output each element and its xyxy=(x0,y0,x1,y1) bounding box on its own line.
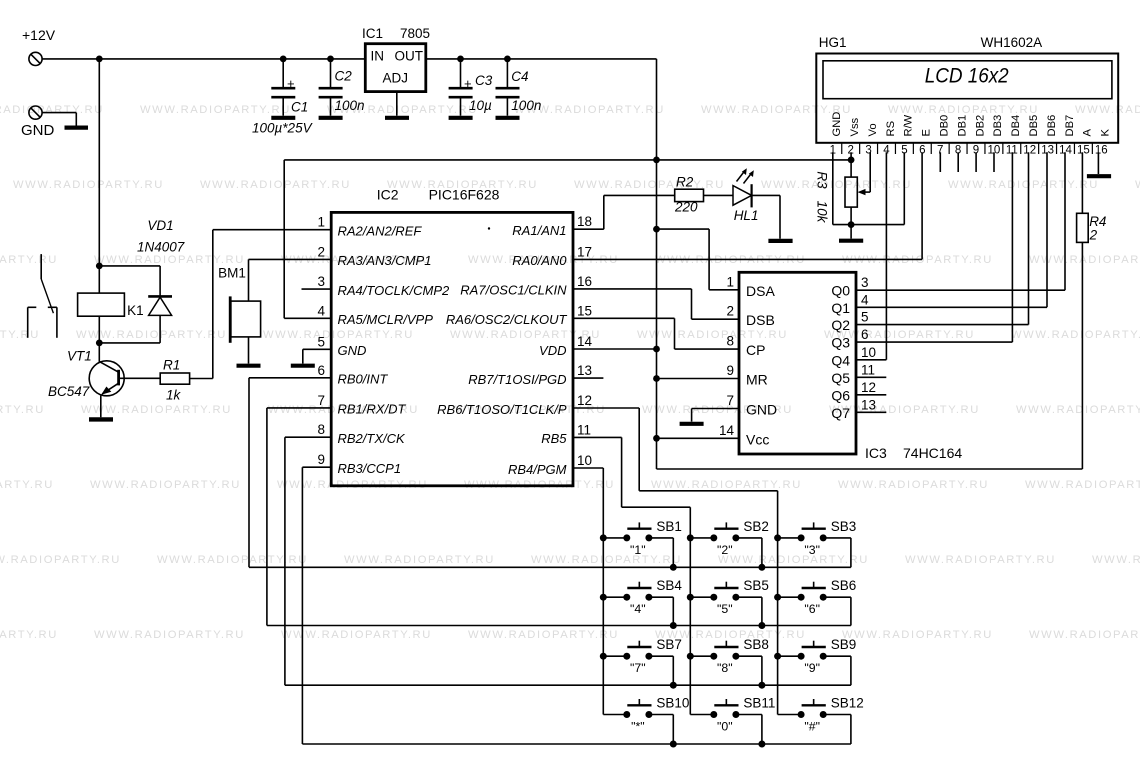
svg-text:R1: R1 xyxy=(163,358,180,373)
wire pin 10 RB4 to keypad column A xyxy=(573,468,603,715)
node junction SB5 to row bus xyxy=(758,622,765,629)
svg-text:IC2: IC2 xyxy=(377,187,399,203)
svg-text:220: 220 xyxy=(674,200,698,215)
svg-text:Q2: Q2 xyxy=(831,317,850,333)
wire R2 to HL1 xyxy=(704,194,734,196)
node junction SB1 to row bus xyxy=(670,564,677,571)
svg-text:Vcc: Vcc xyxy=(746,431,769,447)
svg-text:12: 12 xyxy=(1023,145,1036,157)
capacitor C1 100u*25V electrolytic xyxy=(252,59,314,136)
relay contact K1 xyxy=(28,254,57,338)
node junction column B row 3 xyxy=(687,653,694,660)
svg-text:14: 14 xyxy=(1059,145,1072,157)
wire IC3 Vcc to +5V xyxy=(657,437,740,439)
svg-text:WWW.RADIOPARTY.RU: WWW.RADIOPARTY.RU xyxy=(1011,329,1140,341)
svg-text:5: 5 xyxy=(861,310,869,325)
svg-text:12: 12 xyxy=(577,393,592,408)
svg-text:WWW.RADIOPARTY.RU: WWW.RADIOPARTY.RU xyxy=(0,629,58,641)
svg-text:RB1/RX/DT: RB1/RX/DT xyxy=(338,402,407,417)
svg-text:"5": "5" xyxy=(717,602,733,616)
wire pin 5 GND xyxy=(303,349,331,363)
wire Q2 to LCD DB5 xyxy=(856,152,1029,324)
svg-text:WWW.RADIOPARTY.RU: WWW.RADIOPARTY.RU xyxy=(1135,179,1140,191)
svg-text:2: 2 xyxy=(317,244,325,259)
svg-text:7805: 7805 xyxy=(400,26,430,41)
svg-text:RA4/TOCLK/CMP2: RA4/TOCLK/CMP2 xyxy=(338,283,451,298)
resistor R2 220 xyxy=(674,175,704,215)
wire GND terminal to ground xyxy=(42,113,76,126)
wire Q1 to LCD DB6 xyxy=(856,152,1047,307)
svg-text:16: 16 xyxy=(577,274,592,289)
svg-text:C3: C3 xyxy=(475,73,493,88)
svg-text:ADJ: ADJ xyxy=(383,71,409,86)
svg-text:13: 13 xyxy=(1041,145,1054,157)
svg-text:4: 4 xyxy=(317,303,325,318)
svg-text:18: 18 xyxy=(577,214,592,229)
wire +5V vertical rail xyxy=(656,59,658,469)
svg-text:WWW.RADIOPARTY.RU: WWW.RADIOPARTY.RU xyxy=(905,554,1056,566)
wire pin 15 RA6 to IC3 CP xyxy=(573,318,739,349)
pin 3 RA4 stub xyxy=(302,288,332,290)
wire bottom +5V rail to R4 xyxy=(657,242,1083,469)
svg-text:RA1/AN1: RA1/AN1 xyxy=(512,223,566,238)
wire Q4 to LCD RS xyxy=(856,152,886,359)
svg-text:WWW.RADIOPARTY.RU: WWW.RADIOPARTY.RU xyxy=(0,404,45,416)
pin 11 Q5 stub xyxy=(856,376,886,378)
svg-text:GND: GND xyxy=(338,343,367,358)
LCD DB0-DB3 stubs xyxy=(940,152,994,172)
svg-text:Q4: Q4 xyxy=(831,352,850,368)
terminal +12V input xyxy=(22,27,56,66)
svg-text:SB7: SB7 xyxy=(656,637,682,652)
ground symbol at input xyxy=(65,125,89,129)
svg-text:13: 13 xyxy=(861,397,876,412)
ground symbol HL1 xyxy=(768,239,792,243)
svg-text:"9": "9" xyxy=(804,661,820,675)
svg-text:WWW.RADIOPARTY.RU: WWW.RADIOPARTY.RU xyxy=(637,329,788,341)
svg-text:RA7/OSC1/CLKIN: RA7/OSC1/CLKIN xyxy=(460,283,567,298)
svg-text:GND: GND xyxy=(21,122,55,139)
svg-text:SB11: SB11 xyxy=(743,696,775,711)
ground symbol C2 xyxy=(319,116,343,120)
watermark background texture xyxy=(0,104,1140,641)
node junction C2 xyxy=(327,56,334,63)
svg-text:WH1602A: WH1602A xyxy=(981,35,1043,50)
wire IC1 ADJ pin xyxy=(396,92,398,116)
svg-text:9: 9 xyxy=(726,363,734,378)
svg-text:DB4: DB4 xyxy=(1010,115,1022,137)
svg-text:SB3: SB3 xyxy=(831,519,857,534)
svg-text:DSB: DSB xyxy=(746,312,775,328)
svg-text:WWW.RADIOPARTY.RU: WWW.RADIOPARTY.RU xyxy=(761,179,912,191)
svg-text:WWW.RADIOPARTY.RU: WWW.RADIOPARTY.RU xyxy=(0,329,40,341)
svg-text:K1: K1 xyxy=(127,303,144,318)
node junction column C row 2 xyxy=(774,594,781,601)
svg-text:LCD 16x2: LCD 16x2 xyxy=(925,64,1009,88)
pushbutton SB1 xyxy=(603,519,682,567)
svg-text:8: 8 xyxy=(317,422,325,437)
pushbutton SB12 xyxy=(778,696,864,745)
svg-text:12: 12 xyxy=(861,380,876,395)
svg-text:"6": "6" xyxy=(804,602,820,616)
node junction C1 xyxy=(280,56,287,63)
wire HL1 to ground xyxy=(752,195,780,238)
pushbutton SB9 xyxy=(778,637,857,685)
node junction column C row 1 xyxy=(774,534,781,541)
svg-text:C2: C2 xyxy=(335,69,353,84)
svg-text:WWW.RADIOPARTY.RU: WWW.RADIOPARTY.RU xyxy=(718,554,869,566)
wire R1 to pin1 RA2 xyxy=(190,230,332,379)
IC3 right pin names Q0-Q7 xyxy=(831,283,850,421)
svg-text:DB2: DB2 xyxy=(974,115,986,137)
svg-text:Q0: Q0 xyxy=(831,283,850,299)
diode VD1 1N4007 xyxy=(99,218,184,343)
svg-text:10k: 10k xyxy=(815,201,830,224)
svg-text:RS: RS xyxy=(885,121,897,137)
ground symbol IC2 GND xyxy=(291,364,315,368)
wire Q3 to LCD DB4 xyxy=(856,152,1012,342)
svg-text:DB1: DB1 xyxy=(956,115,968,137)
node junction column B row 2 xyxy=(687,594,694,601)
pushbutton SB11 xyxy=(690,696,775,745)
pushbutton SB5 xyxy=(690,578,769,625)
svg-text:5: 5 xyxy=(317,334,325,349)
node junction Vcc xyxy=(653,435,660,442)
LCD pin names and numbers xyxy=(830,112,1112,157)
svg-text:+: + xyxy=(287,76,295,91)
svg-text:WWW.RADIOPARTY.RU: WWW.RADIOPARTY.RU xyxy=(1016,404,1140,416)
svg-text:15: 15 xyxy=(1077,145,1090,157)
wire pin 7 RB1 to keypad row2 xyxy=(267,408,851,626)
svg-text:7: 7 xyxy=(726,393,734,408)
svg-text:WWW.RADIOPARTY.RU: WWW.RADIOPARTY.RU xyxy=(0,104,104,116)
svg-text:+: + xyxy=(464,76,472,91)
IC3 right pin numbers xyxy=(861,275,876,412)
svg-text:C1: C1 xyxy=(291,100,308,115)
ground symbol IC3 xyxy=(680,422,704,426)
LED HL1 xyxy=(733,168,758,223)
svg-text:WWW.RADIOPARTY.RU: WWW.RADIOPARTY.RU xyxy=(1029,254,1140,266)
resistor R1 1k xyxy=(160,358,189,403)
svg-text:RA0/AN0: RA0/AN0 xyxy=(512,253,567,268)
svg-text:Vo: Vo xyxy=(867,123,879,136)
wire pin 11 RB5 to keypad column B xyxy=(573,437,690,714)
svg-text:VD1: VD1 xyxy=(147,218,173,233)
ground symbol C4 xyxy=(496,116,520,120)
wire LCD pin6 E down xyxy=(921,152,923,259)
wire R3 wiper to Vo xyxy=(858,152,871,195)
svg-text:HL1: HL1 xyxy=(734,208,759,223)
node junction SB10 to row bus xyxy=(670,741,677,748)
svg-text:3: 3 xyxy=(861,275,869,290)
wire pin2 RA3 to BM1 xyxy=(249,259,332,301)
svg-text:Q5: Q5 xyxy=(831,370,850,386)
wire IC3 GND pin7 xyxy=(692,409,739,422)
svg-text:WWW.RADIOPARTY.RU: WWW.RADIOPARTY.RU xyxy=(531,554,682,566)
svg-text:IC1: IC1 xyxy=(362,26,383,41)
svg-text:100µ*25V: 100µ*25V xyxy=(252,121,314,136)
svg-text:WWW.RADIOPARTY.RU: WWW.RADIOPARTY.RU xyxy=(888,104,1039,116)
svg-text:WWW.RADIOPARTY.RU: WWW.RADIOPARTY.RU xyxy=(81,404,232,416)
svg-text:WWW.RADIOPARTY.RU: WWW.RADIOPARTY.RU xyxy=(0,554,121,566)
wire pin 16 RA7 to IC3 DSB xyxy=(573,289,739,319)
pin 13 RB7 stub xyxy=(573,377,603,379)
svg-text:10µ: 10µ xyxy=(469,98,492,113)
wire R3 bottom to ground node xyxy=(850,207,852,238)
node junction SB8 to row bus xyxy=(758,682,765,689)
wire pin 12 RB6 to keypad column C xyxy=(573,408,778,715)
svg-text:BC547: BC547 xyxy=(48,384,90,399)
svg-text:RA2/AN2/REF: RA2/AN2/REF xyxy=(338,224,423,239)
svg-text:SB9: SB9 xyxy=(831,637,857,652)
svg-text:"4": "4" xyxy=(630,602,646,616)
svg-text:1N4007: 1N4007 xyxy=(137,240,185,255)
svg-text:RB3/CCP1: RB3/CCP1 xyxy=(338,461,402,476)
svg-text:GND: GND xyxy=(831,112,843,137)
svg-text:DB3: DB3 xyxy=(992,115,1004,137)
svg-text:WWW.RADIOPARTY.RU: WWW.RADIOPARTY.RU xyxy=(13,179,164,191)
svg-text:BM1: BM1 xyxy=(218,266,246,281)
svg-text:4: 4 xyxy=(883,145,890,157)
svg-text:PIC16F628: PIC16F628 xyxy=(429,187,500,203)
svg-text:DB7: DB7 xyxy=(1064,115,1076,137)
IC3 left pin numbers xyxy=(719,274,735,438)
wire pin 9 RB3 to keypad row4 xyxy=(302,467,851,744)
svg-text:IN: IN xyxy=(371,49,385,64)
svg-text:1: 1 xyxy=(317,215,325,230)
svg-text:15: 15 xyxy=(577,303,592,318)
svg-text:DSA: DSA xyxy=(746,283,775,299)
svg-text:SB8: SB8 xyxy=(743,637,769,652)
svg-text:WWW.RADIOPARTY.RU: WWW.RADIOPARTY.RU xyxy=(948,179,1099,191)
wire Q0 to LCD DB7 xyxy=(856,152,1065,290)
svg-text:K: K xyxy=(1100,129,1112,137)
potentiometer R3 10k xyxy=(815,171,858,223)
svg-text:VDD: VDD xyxy=(539,343,566,358)
svg-text:RB2/TX/CK: RB2/TX/CK xyxy=(338,431,407,446)
wire LCD pin15 A to R4 xyxy=(1081,152,1083,213)
svg-text:SB4: SB4 xyxy=(656,578,682,593)
terminal GND input xyxy=(21,106,55,139)
svg-text:Q6: Q6 xyxy=(831,387,850,403)
svg-text:"1": "1" xyxy=(630,543,646,557)
node junction DSA feed xyxy=(653,226,660,233)
svg-text:6: 6 xyxy=(861,327,869,342)
svg-text:10: 10 xyxy=(861,345,876,360)
node junction +12V rail at relay branch xyxy=(96,56,103,63)
svg-text:R2: R2 xyxy=(676,175,694,190)
wire LCD pin1 GND down xyxy=(833,152,851,224)
svg-text:7: 7 xyxy=(317,393,325,408)
svg-text:C4: C4 xyxy=(511,69,528,84)
svg-text:74HC164: 74HC164 xyxy=(903,445,962,461)
wire +12V rail xyxy=(42,58,656,60)
wire BM1 to ground xyxy=(248,337,250,364)
svg-text:WWW.RADIOPARTY.RU: WWW.RADIOPARTY.RU xyxy=(94,629,245,641)
svg-text:A: A xyxy=(1082,129,1094,137)
svg-text:WWW.RADIOPARTY.RU: WWW.RADIOPARTY.RU xyxy=(829,404,980,416)
node junction +5V rail xyxy=(653,157,660,164)
node junction column C row 3 xyxy=(774,653,781,660)
svg-text:WWW.RADIOPARTY.RU: WWW.RADIOPARTY.RU xyxy=(468,629,619,641)
buzzer BM1 xyxy=(218,266,261,343)
svg-text:SB6: SB6 xyxy=(831,578,857,593)
ground symbol IC1 xyxy=(385,116,409,120)
svg-text:WWW.RADIOPARTY.RU: WWW.RADIOPARTY.RU xyxy=(1092,554,1140,566)
pin 12 Q6 stub xyxy=(856,394,886,396)
wire +5V horizontal rail to LCD xyxy=(284,160,851,318)
svg-text:RB5: RB5 xyxy=(541,431,567,446)
microcontroller IC2 PIC16F628 xyxy=(331,187,573,486)
pushbutton SB6 xyxy=(778,578,857,625)
ground symbol VT1 xyxy=(89,417,113,421)
wire LCD pin16 K to ground xyxy=(1097,152,1099,174)
pushbutton SB2 xyxy=(690,519,769,567)
svg-text:SB10: SB10 xyxy=(656,696,689,711)
relay coil K1 xyxy=(78,293,144,318)
wire pin 18 RA1 to R2 xyxy=(573,195,675,229)
pushbutton SB10 xyxy=(603,696,689,745)
node A stray dot xyxy=(488,227,490,229)
node junction SB11 to row bus xyxy=(758,741,765,748)
wire pin 6 RB0 to keypad row1 xyxy=(249,378,851,568)
pushbutton SB3 xyxy=(778,519,857,567)
svg-text:Q3: Q3 xyxy=(831,335,850,351)
svg-text:WWW.RADIOPARTY.RU: WWW.RADIOPARTY.RU xyxy=(1029,629,1140,641)
node junction SB4 to row bus xyxy=(670,622,677,629)
svg-text:4: 4 xyxy=(861,292,869,307)
svg-text:SB5: SB5 xyxy=(743,578,769,593)
svg-text:WWW.RADIOPARTY.RU: WWW.RADIOPARTY.RU xyxy=(344,554,495,566)
ground symbol R3 xyxy=(839,239,863,243)
svg-text:Vss: Vss xyxy=(849,117,861,136)
pin 13 Q7 stub xyxy=(856,411,886,413)
pushbutton SB4 xyxy=(603,578,682,625)
IC2 left pin names xyxy=(338,224,451,477)
svg-text:+12V: +12V xyxy=(22,27,56,43)
capacitor C4 100n xyxy=(496,59,542,116)
ground symbol BM1 xyxy=(237,364,261,368)
svg-text:DB6: DB6 xyxy=(1046,115,1058,137)
resistor R4 2 xyxy=(1077,213,1107,242)
IC2 right pin numbers xyxy=(577,214,593,468)
svg-text:11: 11 xyxy=(861,362,875,377)
LCD module HG1 WH1602A xyxy=(816,35,1118,143)
svg-text:1: 1 xyxy=(726,274,734,289)
wire pin 8 RB2 to keypad row3 xyxy=(285,437,851,685)
svg-text:17: 17 xyxy=(577,244,592,259)
shift register IC3 74HC164 xyxy=(739,272,962,461)
node junction VD1 top xyxy=(96,263,103,270)
svg-text:SB2: SB2 xyxy=(743,519,769,534)
pushbutton SB7 xyxy=(603,637,682,685)
capacitor C2 100n xyxy=(319,59,365,116)
node junction C4 xyxy=(504,56,511,63)
svg-text:MR: MR xyxy=(746,372,768,388)
IC2 right pin names xyxy=(437,223,567,477)
svg-text:Q7: Q7 xyxy=(831,405,850,421)
voltage regulator IC1 7805 xyxy=(362,26,430,92)
svg-text:WWW.RADIOPARTY.RU: WWW.RADIOPARTY.RU xyxy=(200,179,351,191)
svg-text:RB4/PGM: RB4/PGM xyxy=(508,462,567,477)
IC2 left pin numbers xyxy=(317,215,325,468)
svg-text:WWW.RADIOPARTY.RU: WWW.RADIOPARTY.RU xyxy=(140,104,291,116)
svg-text:"8": "8" xyxy=(717,661,733,675)
svg-text:11: 11 xyxy=(1006,145,1018,157)
node junction column B row 1 xyxy=(687,534,694,541)
svg-text:Q1: Q1 xyxy=(831,300,850,316)
wire LCD pin2 Vss xyxy=(850,152,852,177)
ground symbol C1 xyxy=(271,116,295,120)
node junction MR xyxy=(653,375,660,382)
svg-text:WWW.RADIOPARTY.RU: WWW.RADIOPARTY.RU xyxy=(838,479,989,491)
svg-text:R3: R3 xyxy=(815,171,830,189)
svg-text:RA6/OSC2/CLKOUT: RA6/OSC2/CLKOUT xyxy=(446,312,568,327)
svg-text:GND: GND xyxy=(746,402,777,418)
svg-text:8: 8 xyxy=(726,334,734,349)
svg-text:WWW.RADIOPARTY.RU: WWW.RADIOPARTY.RU xyxy=(1075,104,1140,116)
svg-text:IC3: IC3 xyxy=(865,445,887,461)
svg-text:6: 6 xyxy=(317,363,325,378)
svg-text:"#": "#" xyxy=(804,720,820,734)
wire pin 14 VDD to +5V xyxy=(573,348,657,350)
node junction SB7 to row bus xyxy=(670,682,677,689)
svg-text:WWW.RADIOPARTY.RU: WWW.RADIOPARTY.RU xyxy=(263,329,414,341)
svg-text:14: 14 xyxy=(577,334,593,349)
svg-text:DB0: DB0 xyxy=(939,115,951,137)
node junction column A row 2 xyxy=(600,594,607,601)
svg-text:"7": "7" xyxy=(630,661,646,675)
capacitor C3 10u electrolytic xyxy=(449,59,493,116)
svg-text:RA3/AN3/CMP1: RA3/AN3/CMP1 xyxy=(338,253,432,268)
svg-text:13: 13 xyxy=(577,363,592,378)
svg-text:"*": "*" xyxy=(631,720,645,734)
svg-text:"0": "0" xyxy=(717,720,733,734)
node junction column A row 3 xyxy=(600,653,607,660)
IC3 left pin names xyxy=(746,283,777,448)
node junction Vss LCD xyxy=(848,157,855,164)
wire VT1 emitter to ground xyxy=(100,396,102,418)
svg-text:DB5: DB5 xyxy=(1028,115,1040,137)
svg-text:11: 11 xyxy=(577,422,591,437)
node junction SB2 to row bus xyxy=(758,564,765,571)
svg-text:WWW.RADIOPARTY.RU: WWW.RADIOPARTY.RU xyxy=(281,629,432,641)
svg-text:WWW.RADIOPARTY.RU: WWW.RADIOPARTY.RU xyxy=(94,254,245,266)
svg-text:RB6/T1OSO/T1CLK/P: RB6/T1OSO/T1CLK/P xyxy=(437,402,567,417)
svg-text:100n: 100n xyxy=(335,98,365,113)
wire relay branch vertical xyxy=(98,59,100,361)
wire pin 17 RA0 to LCD E xyxy=(573,258,922,260)
svg-text:SB12: SB12 xyxy=(831,696,864,711)
pushbutton SB8 xyxy=(690,637,769,685)
svg-text:WWW.RADIOPARTY.RU: WWW.RADIOPARTY.RU xyxy=(651,479,802,491)
node junction C3 xyxy=(457,56,464,63)
svg-text:10: 10 xyxy=(577,453,592,468)
svg-text:2: 2 xyxy=(726,304,734,319)
svg-text:"3": "3" xyxy=(804,543,820,557)
svg-text:OUT: OUT xyxy=(395,49,424,64)
svg-text:1k: 1k xyxy=(166,388,182,403)
transistor VT1 BC547 xyxy=(48,349,160,400)
svg-text:HG1: HG1 xyxy=(819,35,847,50)
svg-text:WWW.RADIOPARTY.RU: WWW.RADIOPARTY.RU xyxy=(701,104,852,116)
ground symbol LCD backlight K xyxy=(1087,174,1111,178)
svg-text:E: E xyxy=(921,129,933,136)
svg-text:R/W: R/W xyxy=(903,114,915,136)
svg-text:RA5/MCLR/VPP: RA5/MCLR/VPP xyxy=(338,312,434,327)
svg-text:CP: CP xyxy=(746,342,765,358)
wire +5V to IC3 DSA xyxy=(657,229,740,290)
